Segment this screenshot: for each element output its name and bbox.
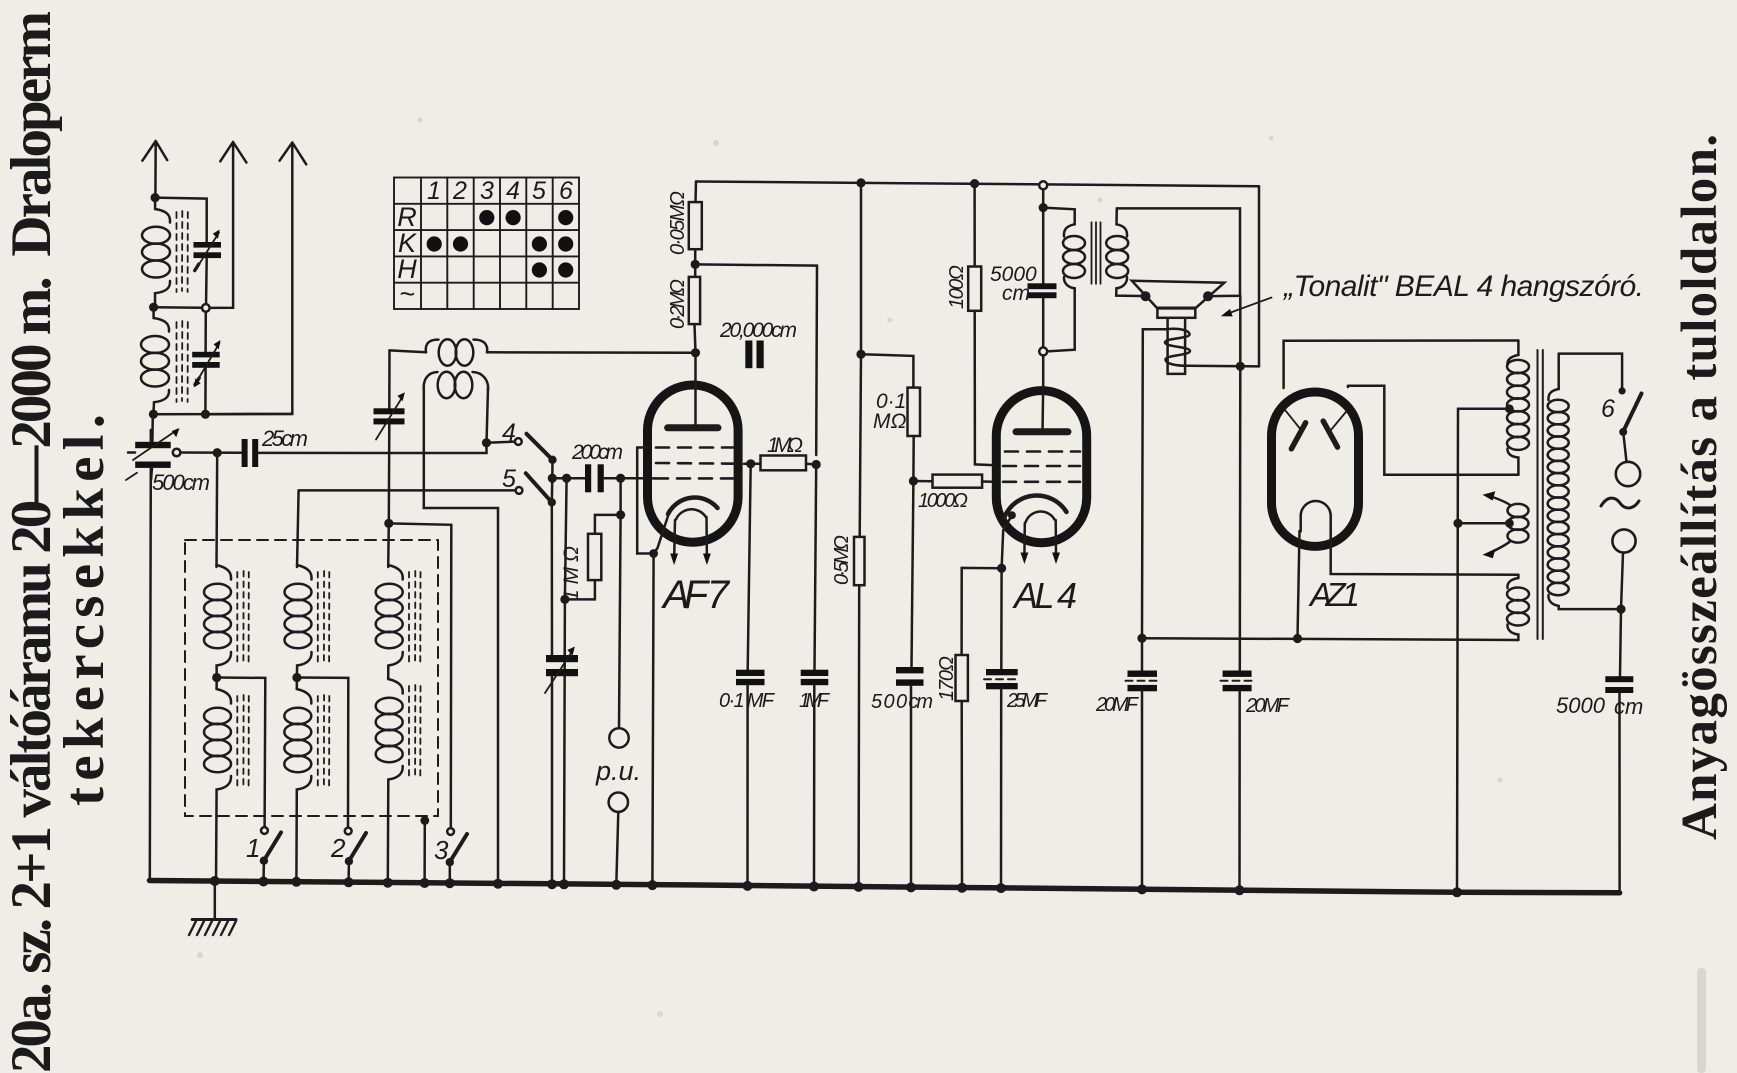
output transformer core xyxy=(1092,222,1101,283)
antenna 1 xyxy=(142,141,167,198)
wire: AZ1 cathode to B+ node xyxy=(1298,531,1300,638)
capacitor 20MF no.2 electrolytic xyxy=(1221,671,1255,891)
label 5000 cm tone xyxy=(990,263,1037,305)
coil box shield (dashed) xyxy=(185,540,438,816)
svg-text:170Ω: 170Ω xyxy=(936,656,958,701)
node: AF7 cathode junction xyxy=(649,549,658,558)
wire: AZ1 right anode lead to HV bottom xyxy=(1348,386,1519,475)
node: L2 bottom junction xyxy=(149,410,158,419)
node: heater CT junction xyxy=(1453,519,1462,528)
wire: L3 tap to switch 1 xyxy=(217,678,266,828)
node: L1 bottom junction xyxy=(149,303,158,312)
table row labels R K H ~ xyxy=(397,202,417,309)
mains terminal lower xyxy=(1612,529,1635,552)
svg-text:2: 2 xyxy=(330,833,346,863)
node: primary bottom junction xyxy=(1616,605,1625,614)
coil L3b xyxy=(204,678,231,884)
label 5000 cm mains xyxy=(1556,693,1643,719)
svg-text:0·1 MF: 0·1 MF xyxy=(719,690,776,712)
top supply rail xyxy=(696,182,1259,187)
speaker pointer arrow xyxy=(1221,298,1272,317)
svg-text:cm: cm xyxy=(1614,694,1643,719)
core of L3 (dashed) xyxy=(237,571,249,663)
wire: shield ground xyxy=(423,821,426,885)
AF7 tube envelope xyxy=(648,385,739,542)
svg-text:4: 4 xyxy=(502,419,516,447)
wire: 25cm to oscillator coupling node xyxy=(258,443,486,453)
power transformer primary xyxy=(1548,354,1621,609)
node: top rail AL4 anode terminal (open) xyxy=(1039,181,1047,189)
wire: column 2 feed (from switch 5 line) xyxy=(297,490,299,567)
wire: 1MF column down xyxy=(815,465,817,670)
svg-text:tekercsekkel.: tekercsekkel. xyxy=(53,414,116,806)
svg-text:500cm: 500cm xyxy=(152,470,210,495)
oscillator anode coil L6 xyxy=(390,339,489,365)
node: top rail dot at x861 xyxy=(856,178,865,187)
oscillator grid coil L7 xyxy=(424,372,488,398)
core of L4 (dashed) xyxy=(318,571,330,663)
svg-text:AF 7: AF 7 xyxy=(661,573,731,617)
wire: AF7 cathode to bus xyxy=(652,554,653,885)
power transformer AZ1 filament winding xyxy=(1507,575,1529,640)
wire: junction down to 20MF2 xyxy=(1239,296,1242,671)
AL4 tube envelope xyxy=(996,391,1086,543)
wire: oscillator coil to AF7 anode line xyxy=(488,351,696,354)
left margin title text xyxy=(0,11,116,1073)
wire: grid node down to p.u. xyxy=(619,478,621,728)
table header digits xyxy=(427,177,573,205)
right margin title text xyxy=(1672,134,1728,840)
coil L3a xyxy=(204,565,231,678)
node: middle antenna tap (open circle) xyxy=(202,304,210,312)
node: grid leak bottom junction xyxy=(560,595,569,604)
svg-text:20MF: 20MF xyxy=(1245,695,1291,717)
resistor 170-ohm xyxy=(956,568,1002,888)
coil L4b xyxy=(284,678,311,884)
node: primary top junction xyxy=(1039,203,1048,212)
node: B+ junction at 20MF1 xyxy=(1137,634,1146,643)
svg-text:0·05MΩ: 0·05MΩ xyxy=(667,191,689,255)
wire: secondary top loop to voice coil xyxy=(1117,208,1240,296)
mains tilde xyxy=(1601,498,1639,508)
svg-text:1MΩ: 1MΩ xyxy=(767,434,803,457)
svg-text:25MF: 25MF xyxy=(1006,690,1049,712)
core of L5b (dashed) xyxy=(409,685,421,777)
AL4 anode lead xyxy=(1041,386,1044,432)
svg-text:3: 3 xyxy=(480,177,494,205)
node: screen grid lead junction xyxy=(746,459,755,468)
wire: column 1 feed xyxy=(215,453,218,567)
resistor 0.2M-ohm xyxy=(689,277,700,324)
p.u. pickup terminals xyxy=(609,728,629,885)
wire: AL4 anode column xyxy=(1042,189,1045,386)
grid trimmer capacitor to ground xyxy=(545,502,578,884)
AZ1 tube envelope xyxy=(1272,392,1359,546)
wire: HV tap to bus xyxy=(1457,409,1509,892)
wire: 0.1M down to grid stopper node xyxy=(912,436,915,481)
capacitor 25MF electrolytic xyxy=(984,568,1020,888)
AZ1 anode left xyxy=(1286,411,1306,449)
ground symbol xyxy=(189,883,236,935)
oscillator trimmer capacitor xyxy=(374,350,405,523)
node: antenna top junction xyxy=(151,193,160,202)
speaker cone xyxy=(1132,281,1225,374)
wire: grid node into AF7 grid xyxy=(621,477,655,480)
wire: L4 tap to switch 2 xyxy=(297,678,348,828)
wire: screen node down to 0.1MF xyxy=(748,464,751,670)
node: choke output junction xyxy=(1236,362,1245,371)
wire: switch pivots vertical xyxy=(551,460,554,503)
svg-text:„Tonalitʺ BEAL 4 hangszóró.: „Tonalitʺ BEAL 4 hangszóró. xyxy=(1282,270,1644,303)
wire: top node to trimmer C1 xyxy=(155,198,207,242)
wire: rail corner down to 0.05M resistor xyxy=(694,182,697,203)
core of L4b (dashed) xyxy=(318,695,330,787)
wire: pivot node to 200cm xyxy=(552,477,585,480)
bus junction dots xyxy=(210,876,1462,897)
AF7 heater xyxy=(676,509,706,519)
AL4 cathode xyxy=(1005,496,1067,517)
resistor 100-ohm screen feed xyxy=(968,184,993,466)
node: anode junction xyxy=(691,348,700,357)
speaker field coil xyxy=(1165,329,1190,366)
resistor 1000-ohm xyxy=(913,475,993,488)
svg-text:0·5MΩ: 0·5MΩ xyxy=(831,535,853,585)
core of L5 (dashed) xyxy=(409,571,421,663)
svg-text:25cm: 25cm xyxy=(261,426,308,451)
AF7 anode plate xyxy=(668,424,718,431)
output transformer secondary xyxy=(1106,208,1141,296)
node: voice coil terminals on cone xyxy=(1141,291,1151,301)
wire: primary top to switch 6 xyxy=(1559,354,1622,388)
capacitor 20MF no.1 electrolytic xyxy=(1126,638,1160,889)
antenna 2 xyxy=(207,142,247,308)
node: 1MF top junction xyxy=(812,460,821,469)
svg-text:5 0 0 cm: 5 0 0 cm xyxy=(871,691,933,713)
wire: switch 3 feed from oscillator node xyxy=(389,523,452,828)
wire: 0.05M to node xyxy=(694,249,697,277)
output transformer primary xyxy=(1043,208,1085,352)
wire: AZ1 left anode lead to HV top xyxy=(1284,341,1519,389)
resistor 0.05M-ohm xyxy=(689,202,702,249)
antenna 3 xyxy=(207,143,306,415)
AL4 heater leads with arrows xyxy=(1021,520,1061,564)
wire: bus left end up to 500cm xyxy=(150,430,151,882)
wire: lower terminal to primary bottom node xyxy=(1621,553,1623,610)
table dots xyxy=(427,210,574,278)
svg-text:2: 2 xyxy=(452,177,467,205)
svg-text:1 MF: 1 MF xyxy=(799,690,831,712)
capacitor 0.1MF xyxy=(736,670,765,886)
wire: heater CT to ground line xyxy=(1458,522,1509,525)
resistor 1M-ohm screen feed xyxy=(751,456,817,471)
svg-text:~: ~ xyxy=(399,279,415,309)
svg-text:5: 5 xyxy=(502,465,516,493)
power transformer core xyxy=(1538,350,1543,639)
capacitor 5000cm tone xyxy=(1028,283,1057,298)
svg-text:100Ω: 100Ω xyxy=(946,265,968,309)
AL4 grid 1 (dashed) xyxy=(1005,450,1080,453)
svg-text:6: 6 xyxy=(1601,395,1615,423)
wire: column 3 feed xyxy=(387,523,390,567)
node: trimmer2 bottom junction xyxy=(201,410,210,419)
svg-text:p.u.: p.u. xyxy=(595,756,641,786)
coil L5b xyxy=(376,679,403,884)
node: grid leak top junction xyxy=(616,510,625,519)
trimmer capacitor across L1 xyxy=(194,230,222,308)
AL4 cathode lead xyxy=(1002,515,1012,568)
node: AL4 grid node xyxy=(909,476,918,485)
wire: field coil top to B+ node xyxy=(1142,329,1166,638)
switch 4 xyxy=(487,434,557,464)
capacitor 1MF xyxy=(801,670,829,887)
wire: junction up to top rail xyxy=(860,183,863,354)
AF7 cathode xyxy=(668,498,718,514)
AF7 grid 3 (dashed) with lead left xyxy=(655,477,733,480)
wire: field coil bottom to rail corner xyxy=(1188,365,1259,368)
AL4 anode plate xyxy=(1016,428,1068,435)
wire: B+ line to AZ1 cathode and filament winding xyxy=(1142,638,1518,640)
node: screen divider junction xyxy=(691,260,700,269)
svg-text:4: 4 xyxy=(506,177,520,205)
node: oscillator coupling junction xyxy=(482,438,491,447)
node: primary bottom junction (open) xyxy=(1039,347,1047,355)
AF7 anode lead xyxy=(694,353,697,428)
node: junction to coil box column 1 xyxy=(213,448,222,457)
tuning table xyxy=(394,178,579,310)
wire: 0.2M to anode line xyxy=(695,324,696,353)
node: heater winding centre tap xyxy=(1505,519,1514,528)
core of L1 (dashed) xyxy=(177,211,188,292)
node: grid branch junction xyxy=(562,474,571,483)
label 0.1M-ohm xyxy=(873,390,906,433)
svg-text:AZ 1: AZ 1 xyxy=(1308,576,1360,613)
resistor 0.5M-ohm xyxy=(854,354,865,887)
coil L5a xyxy=(376,565,403,679)
trimmer capacitor across L2 xyxy=(192,312,220,415)
wire: return line x565 xyxy=(564,478,567,884)
capacitor 5000cm mains xyxy=(1605,609,1633,893)
node: AZ1 cathode junction xyxy=(1293,634,1302,643)
node: AF7 grid node xyxy=(616,474,625,483)
ground bus xyxy=(150,881,1620,893)
node: HV centre tap xyxy=(1505,404,1514,413)
antenna coil L1 xyxy=(142,198,170,307)
mains terminal upper xyxy=(1616,462,1640,486)
node: AL4 cathode tap xyxy=(1008,511,1016,519)
core of L2 (dashed) xyxy=(177,321,188,402)
variable capacitor 500cm xyxy=(126,428,180,480)
svg-text:5: 5 xyxy=(532,177,546,205)
antenna coil L2 xyxy=(141,307,169,414)
svg-text:20,000cm: 20,000cm xyxy=(719,319,797,342)
AF7 metallising lead xyxy=(637,448,653,554)
AL4 heater xyxy=(1026,512,1055,523)
svg-text:cm: cm xyxy=(1002,282,1030,305)
switch 6 xyxy=(1619,387,1642,462)
node: shield to bus junction xyxy=(420,816,429,825)
AF7 grid 1 (dashed) xyxy=(656,446,733,449)
switch 5 xyxy=(299,473,556,506)
node: L3 tap junction xyxy=(212,673,221,682)
capacitor 25cm xyxy=(242,439,259,467)
resistor 1M-ohm grid leak xyxy=(565,515,621,600)
wire: L7 right side to coupling node xyxy=(487,388,489,443)
core of L3b (dashed) xyxy=(237,695,249,787)
svg-text:MΩ: MΩ xyxy=(873,410,906,433)
wire: anode line to 0.1M resistor xyxy=(861,354,913,387)
node: AL4 cathode junction xyxy=(997,564,1006,573)
svg-text:0·2MΩ: 0·2MΩ xyxy=(667,279,689,329)
AZ1 filament xyxy=(1301,501,1331,531)
node: pivot junction xyxy=(548,474,557,483)
AF7 heater leads with arrows xyxy=(670,517,711,565)
AL4 grid 2 screen (dashed) xyxy=(1003,465,1080,468)
wire: divider node to 1MF column xyxy=(695,264,817,455)
power transformer HV secondary xyxy=(1507,341,1529,475)
resistor 0.1M-ohm xyxy=(908,388,921,436)
capacitor 200cm xyxy=(585,464,621,492)
svg-text:1000Ω: 1000Ω xyxy=(918,490,968,512)
node: oscillator trimmer bottom junction xyxy=(384,519,393,528)
svg-text:3: 3 xyxy=(434,835,449,865)
switch 1 xyxy=(260,827,281,883)
switch 3 xyxy=(446,828,467,884)
node: 500cm output (open circle) xyxy=(173,449,181,457)
svg-text:6: 6 xyxy=(559,177,573,205)
svg-text:200cm: 200cm xyxy=(571,441,623,464)
node: anode line to top rail junction xyxy=(856,350,865,359)
switch 2 xyxy=(345,828,366,884)
svg-text:1MΩ: 1MΩ xyxy=(560,546,583,601)
svg-text:20MF: 20MF xyxy=(1095,694,1140,716)
wire: AZ1 filament right to filament winding xyxy=(1331,531,1519,575)
capacitor 20000cm xyxy=(745,341,763,369)
wire: grid node down to 500cm cap xyxy=(912,481,914,667)
AZ1 anode right xyxy=(1323,411,1347,447)
svg-text:5000: 5000 xyxy=(1556,693,1606,718)
node: top rail screen junction xyxy=(970,179,979,188)
node: L4 tap junction xyxy=(292,673,301,682)
svg-text:Anyagösszeállítás a tuloldalon: Anyagösszeállítás a tuloldalon. xyxy=(1672,134,1728,840)
capacitor 500cm (cathode area) xyxy=(896,667,924,888)
coil L4a xyxy=(285,565,312,678)
wire: middle node horizontal xyxy=(154,306,202,309)
svg-text:AL 4: AL 4 xyxy=(1012,575,1077,616)
svg-text:1: 1 xyxy=(427,177,441,205)
wire: 500cm to 25cm capacitor xyxy=(180,451,241,454)
AF7 cathode lead xyxy=(654,515,669,554)
wire: L7 left side down and to bus xyxy=(424,388,498,884)
wire: bottom antenna tap horizontal xyxy=(153,413,292,416)
wire: L2 node down to 500cm xyxy=(151,414,154,442)
wire: top rail corner down xyxy=(1258,186,1261,366)
power transformer heater winding xyxy=(1483,491,1529,558)
AF7 grid 2 (dashed) with lead right xyxy=(656,462,751,465)
svg-text:1: 1 xyxy=(246,833,260,863)
AL4 grid 3 (dashed) xyxy=(1003,480,1080,483)
